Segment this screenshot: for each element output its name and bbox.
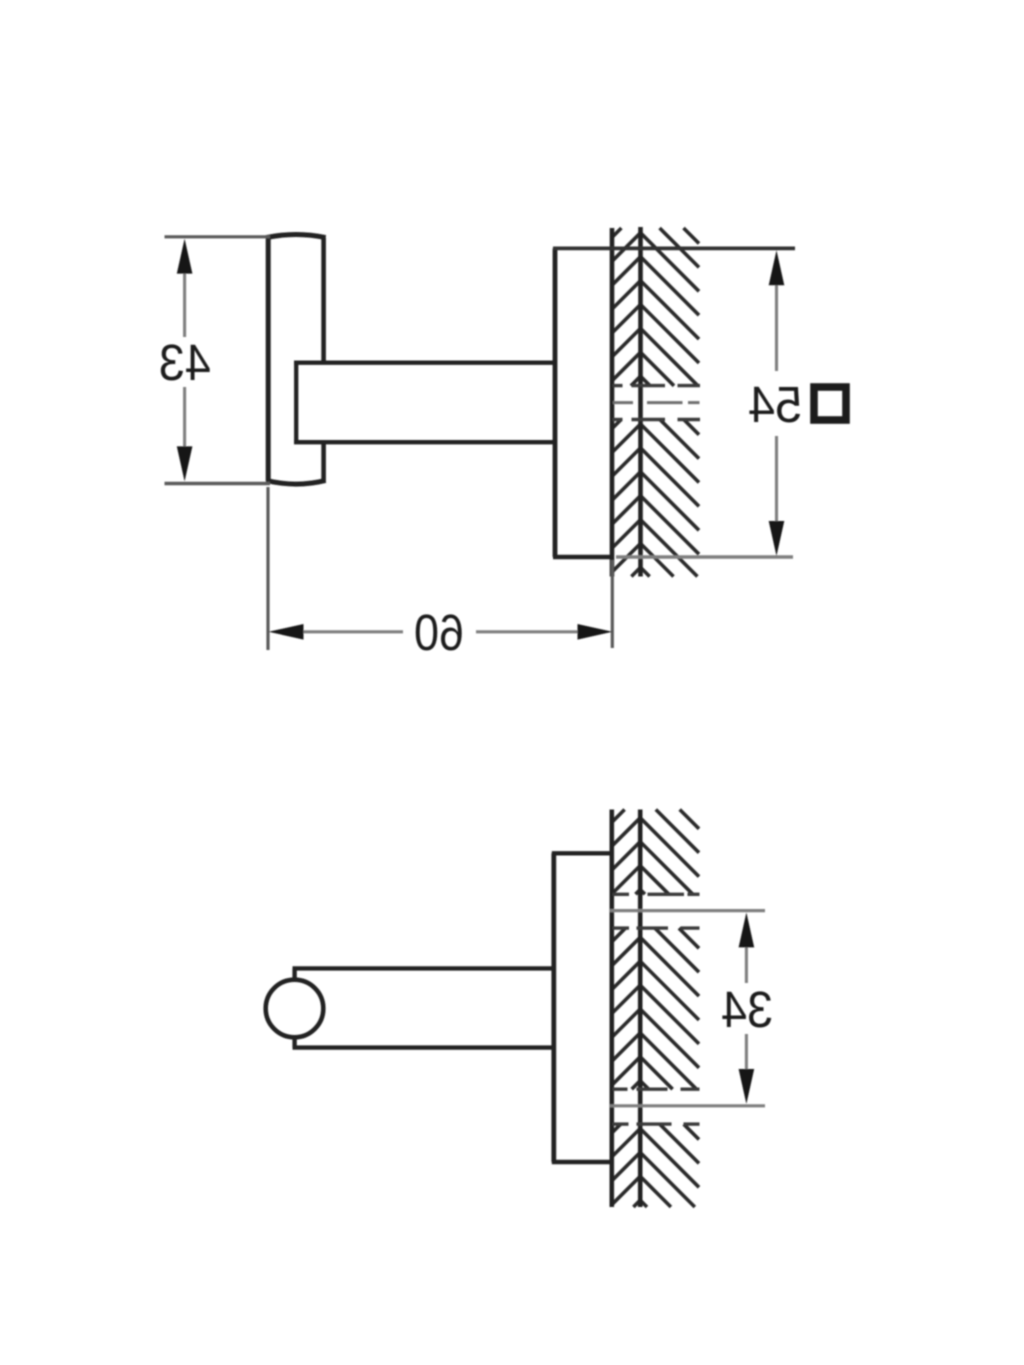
hole hidden line upper (top view)	[613, 384, 701, 387]
plate top edge (bottom view)	[552, 851, 612, 855]
stem bottom edge	[294, 440, 556, 444]
dim 60 dimension line	[302, 630, 579, 633]
knob circle (bottom view)	[266, 980, 324, 1038]
plate left edge (bottom view)	[551, 853, 556, 1162]
hole hidden line lower (top view)	[613, 418, 701, 421]
arm bottom edge (bottom view)	[293, 1045, 557, 1049]
knob bottom edge (arc)	[266, 480, 325, 484]
plate bottom edge (top view)	[553, 555, 614, 560]
hole 1 hidden edge lower (bottom view)	[613, 926, 700, 929]
dim 60 right arrow	[578, 624, 613, 640]
svg-text:34: 34	[721, 981, 773, 1038]
hole 2 hidden edge upper (bottom view)	[613, 1087, 700, 1090]
hole 2 centerline / dim 34 bottom extension	[610, 1104, 765, 1107]
dim 43 bottom arrow	[177, 446, 193, 481]
dim 60 right extension line	[611, 560, 614, 648]
hole 1 hidden edge upper (bottom view)	[613, 893, 700, 896]
dim 54 text (mirrored)	[748, 376, 802, 433]
square-profile symbol for dim 54	[814, 387, 846, 420]
stem top edge	[294, 361, 556, 365]
svg-text:60: 60	[414, 604, 464, 661]
plate left edge (top view)	[553, 248, 558, 557]
dim 43 bottom extension line	[165, 482, 271, 485]
knob right edge (interrupted by stem)	[321, 238, 326, 482]
wall surface line (bottom view)	[609, 810, 614, 1208]
dim 54 bottom arrow	[769, 521, 785, 556]
dim 60 left extension line	[266, 487, 269, 650]
hole 1 centerline / dim 34 top extension	[610, 909, 765, 912]
svg-text:54: 54	[748, 376, 802, 433]
dim 34 top arrow	[739, 912, 755, 947]
stem left edge	[294, 363, 298, 443]
svg-text:43: 43	[159, 334, 211, 391]
hole 2 hidden edge lower (bottom view)	[613, 1122, 700, 1125]
wall hatch (bottom view)	[612, 810, 699, 1208]
dim 43 dimension line	[183, 271, 186, 449]
knob left edge	[266, 238, 271, 482]
dim 34 text (mirrored)	[721, 981, 773, 1038]
hole centerline (top view)	[613, 401, 700, 404]
dim 34 dimension line	[745, 944, 748, 1072]
dim 54 bottom extension line	[616, 555, 793, 558]
plate bottom edge (bottom view)	[552, 1160, 612, 1165]
wall inner line (top view)	[638, 227, 643, 577]
wall inner line (bottom view)	[638, 810, 643, 1208]
dim 34 bottom arrow	[739, 1069, 755, 1104]
knob top edge (arc)	[266, 235, 325, 238]
plate top edge + dim 54 top extension line	[553, 246, 795, 250]
dim 54 top arrow	[769, 250, 785, 285]
dim 43 top arrow	[177, 239, 193, 274]
arm left edge segments (interrupted by knob circle)	[292, 968, 296, 1047]
dim 43 top extension line	[165, 235, 271, 238]
wall surface line (top view)	[610, 228, 615, 577]
dim 60 text (mirrored)	[414, 604, 464, 661]
wall hatch (top view)	[612, 228, 699, 577]
dim 54 dimension line	[775, 283, 778, 523]
arm top edge (bottom view)	[293, 966, 557, 970]
dim 43 text (mirrored)	[159, 334, 211, 391]
dim 60 left arrow	[269, 624, 304, 640]
